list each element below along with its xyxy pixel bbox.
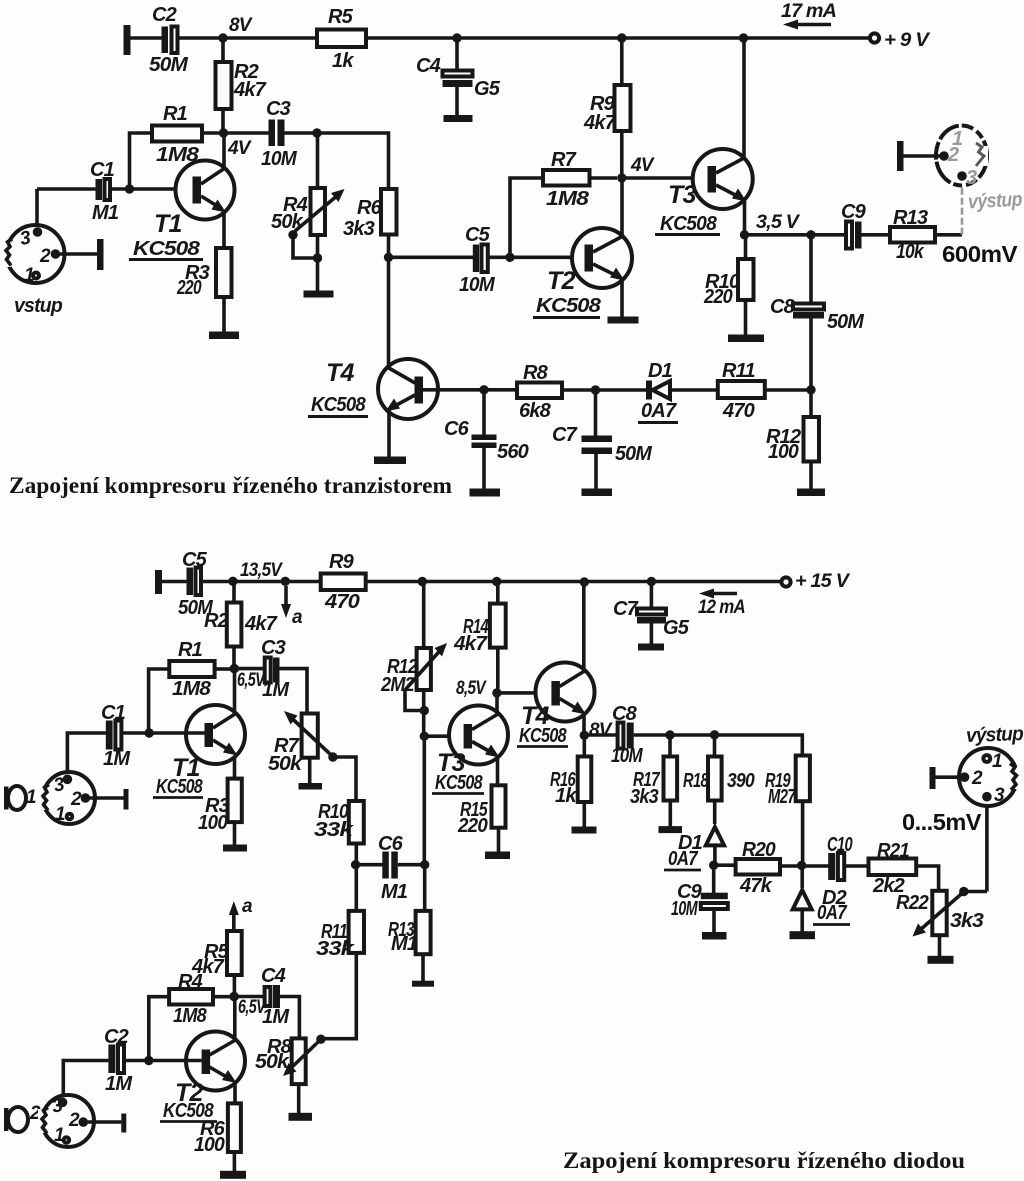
svg-text:1M8: 1M8 (172, 678, 212, 700)
svg-text:50k: 50k (255, 1051, 290, 1073)
svg-text:C8: C8 (612, 703, 638, 725)
capacitor C2 (149, 4, 189, 76)
svg-text:3: 3 (994, 785, 1005, 806)
wire pin3 up to C1 (bottom input 1) (67, 733, 106, 779)
svg-text:KC508: KC508 (311, 394, 367, 416)
600mV label (942, 241, 1018, 267)
resistor R5 1k (317, 6, 366, 72)
T4 collector wire (bottom) (582, 582, 586, 671)
svg-text:13,5V: 13,5V (240, 560, 283, 581)
svg-text:1M8: 1M8 (173, 1005, 208, 1027)
svg-text:2: 2 (68, 1110, 80, 1131)
resistor R5 4k7 (bottom) (191, 931, 242, 997)
svg-text:0A7: 0A7 (668, 848, 698, 870)
svg-text:a: a (292, 607, 303, 628)
resistor R2 4k7 (216, 38, 267, 133)
svg-text:1: 1 (992, 751, 1002, 772)
wire pin3 up to C2 (input 2) (63, 1061, 108, 1103)
input terminal bar (top left) (124, 25, 131, 55)
diode D1 0A7 (bottom) (664, 826, 724, 871)
wire pin2 to ground-plate bar (60, 239, 104, 270)
resistor R11 470 (718, 360, 811, 422)
T2 collector wire (bottom) (233, 997, 237, 1041)
wire C4 right down to R8 (280, 997, 299, 1039)
wire output pin3 down to R22 wiper (985, 800, 989, 892)
svg-text:1M: 1M (262, 679, 290, 701)
capacitor C3 10M (228, 98, 317, 170)
wire C9 to R13 (862, 233, 891, 237)
svg-text:C7: C7 (552, 424, 578, 446)
capacitor C4 1M (234, 965, 290, 1028)
ground below D2 (790, 931, 816, 939)
+15V terminal (781, 571, 850, 592)
capacitor C9 10M (bottom) (671, 865, 728, 932)
ground below C9 (702, 932, 727, 940)
svg-text:R1: R1 (163, 103, 188, 125)
svg-text:100: 100 (198, 812, 228, 834)
node C6 right / R13 top (420, 860, 429, 869)
transistor T3 KC508 (655, 149, 753, 235)
node a with down arrow (281, 577, 303, 628)
svg-text:220: 220 (457, 815, 488, 837)
svg-text:M1: M1 (381, 881, 408, 903)
wire top rail R5 to +9V (366, 36, 870, 40)
node T4 base / C6 (479, 385, 488, 394)
node a2 arrow (above R5) (229, 896, 253, 931)
T4 emitter wire + ground (374, 410, 406, 464)
svg-text:220: 220 (703, 286, 733, 308)
svg-text:KC508: KC508 (536, 295, 602, 317)
resistor R11 33k (bottom) (316, 865, 364, 1039)
0...5mV label (902, 809, 982, 835)
node R10 bottom / C6 left (351, 860, 360, 869)
input terminal bar (bottom schematic) (155, 570, 162, 594)
svg-text:560: 560 (497, 441, 529, 463)
capacitor C6 560 (444, 390, 529, 489)
capacitor C5 10M (459, 224, 496, 296)
svg-text:4V: 4V (227, 138, 252, 159)
svg-text:C1: C1 (90, 159, 115, 181)
svg-text:4V: 4V (630, 155, 655, 176)
ground below R7 (299, 783, 323, 790)
svg-text:17 mA: 17 mA (781, 1, 836, 22)
svg-text:10M: 10M (261, 148, 298, 170)
ground below R13 (412, 981, 434, 987)
svg-text:C6: C6 (378, 833, 404, 855)
svg-text:6k8: 6k8 (519, 400, 552, 422)
T1 emitter wire (222, 211, 226, 248)
wire R1 left down to base node (130, 133, 153, 189)
diode D2 0A7 (793, 869, 850, 932)
svg-text:+ 9 V: + 9 V (884, 30, 930, 51)
DIN connector vstup (input, top schematic) (2, 225, 65, 286)
ground below C7 (582, 489, 613, 497)
potentiometer R12 2M2 (380, 582, 447, 737)
ground below R22 (928, 956, 954, 964)
resistor R21 2k2 (869, 840, 939, 897)
svg-text:+ 15 V: + 15 V (795, 571, 850, 592)
capacitor C8 10M (bottom) (584, 703, 670, 767)
svg-text:2: 2 (947, 144, 959, 166)
svg-text:100: 100 (768, 441, 799, 463)
wire R4 left down to T2 base node (149, 997, 169, 1061)
node 6,5V (T2 collector, bottom) (229, 992, 266, 1018)
node T1 base (110, 184, 193, 193)
svg-text:2M2: 2M2 (380, 674, 415, 696)
output terminal bar (897, 141, 940, 171)
resistor R18 390 (683, 735, 755, 824)
svg-text:R8: R8 (523, 362, 549, 384)
svg-text:33k: 33k (316, 938, 355, 960)
node T3 base (bottom) (420, 732, 464, 865)
T3 collector wire (bottom) (495, 693, 499, 714)
svg-text:C5: C5 (182, 549, 208, 571)
node C7 top (647, 577, 656, 586)
svg-text:50k: 50k (271, 211, 304, 233)
node R12 top (418, 577, 427, 586)
wire node right and down to R6 (317, 133, 389, 189)
resistor R2 4k7 (bottom) (204, 582, 278, 669)
capacitor C3 1M (bottom) (234, 637, 290, 701)
transistor T4 KC508 (mirrored) (308, 359, 438, 419)
resistor R15 220 (457, 785, 505, 852)
resistor R16 1k (550, 735, 591, 827)
12mA current arrow (698, 589, 745, 619)
svg-text:M1: M1 (92, 202, 119, 224)
svg-text:KC508: KC508 (435, 772, 483, 794)
wire terminal to C2 (130, 36, 162, 40)
capacitor C5 50M (bottom) (178, 549, 214, 619)
capacitor C2 1M (bottom) (104, 1026, 133, 1095)
capacitor C7 50M (top schematic) (552, 390, 653, 489)
svg-text:8V: 8V (229, 15, 253, 36)
svg-text:4k7: 4k7 (583, 112, 617, 134)
capacitor C8 50M (770, 235, 865, 390)
svg-text:R2: R2 (204, 610, 229, 632)
T2 base node (bottom) (124, 1056, 202, 1065)
svg-text:8V: 8V (589, 720, 613, 741)
svg-text:C9: C9 (841, 201, 867, 223)
svg-text:R5: R5 (328, 6, 354, 28)
svg-text:C10: C10 (827, 834, 852, 856)
svg-text:R4: R4 (178, 971, 203, 993)
T4 base wire to node (423, 388, 517, 392)
ground below R15 (485, 852, 510, 860)
node 13,5V (228, 560, 283, 586)
T1 collector wire (bottom) (233, 669, 237, 714)
mic symbol O1 (4, 786, 36, 810)
svg-text:T2: T2 (547, 267, 575, 295)
svg-text:10M: 10M (671, 898, 699, 920)
svg-text:2: 2 (39, 246, 51, 267)
svg-text:R13: R13 (893, 207, 928, 229)
svg-text:KC508: KC508 (519, 725, 567, 747)
ground below R4 (304, 291, 334, 298)
ground below R3 (209, 332, 239, 340)
node 4V (T2 collector) (617, 155, 655, 183)
wire node down to R4 (316, 133, 320, 188)
wire terminal to C5 (162, 580, 188, 584)
svg-text:C3: C3 (261, 637, 286, 659)
wire input pin3 up to C1 (35, 189, 39, 232)
ground below R17 (659, 826, 683, 833)
+9V terminal (870, 30, 930, 51)
node R6 bottom / T4 collector (384, 253, 393, 262)
wire 8V node to R5 (223, 36, 317, 40)
T3 emitter wire (bottom) (496, 756, 500, 785)
ground below R10 (728, 335, 764, 343)
ground below R6 (220, 1171, 246, 1179)
svg-text:C2: C2 (104, 1026, 129, 1048)
wire node to T4 base (bottom) (497, 691, 552, 695)
ground below R8 (289, 1113, 313, 1121)
resistor R10 220 (703, 235, 753, 335)
vstup label (14, 295, 63, 317)
wire pin2 to bar (input 1) (90, 789, 129, 810)
svg-text:4k7: 4k7 (244, 613, 278, 635)
node 6,5V (T1 collector, bottom) (230, 664, 266, 691)
T1 base node (bottom) (122, 728, 205, 737)
svg-text:C4: C4 (261, 965, 286, 987)
svg-text:3k3: 3k3 (950, 910, 984, 932)
node C7 top (591, 385, 600, 394)
svg-text:R22: R22 (896, 892, 929, 914)
capacitor C6 M1 (bottom) (356, 833, 425, 903)
resistor R13 10k (890, 207, 935, 263)
node C4 top (452, 33, 461, 42)
DIN connector vystup (bottom schematic) (959, 748, 1019, 806)
svg-text:a: a (242, 896, 253, 917)
svg-text:0A7: 0A7 (641, 400, 677, 422)
svg-text:1M: 1M (262, 1006, 290, 1028)
svg-text:M27: M27 (768, 786, 796, 808)
svg-text:KC508: KC508 (660, 213, 718, 235)
potentiometer R8 50k (bottom) (255, 1035, 326, 1114)
svg-text:1k: 1k (332, 50, 354, 72)
wire to node a (233, 580, 321, 584)
T3 collector wire (742, 38, 746, 159)
node after C3 (312, 128, 321, 137)
svg-text:470: 470 (722, 400, 755, 422)
svg-text:12 mA: 12 mA (698, 597, 745, 618)
svg-text:KC508: KC508 (156, 776, 203, 798)
T2 collector wire (620, 178, 624, 237)
svg-text:R7: R7 (551, 149, 577, 171)
svg-text:470: 470 (324, 591, 360, 613)
ground below C6 (470, 489, 501, 497)
svg-text:Zapojení kompresoru řízeného d: Zapojení kompresoru řízeného diodou (563, 1148, 965, 1173)
resistor R7 1M8 (510, 149, 617, 257)
svg-text:4k7: 4k7 (233, 79, 267, 101)
svg-text:T1: T1 (154, 210, 182, 238)
resistor R3 220 (176, 248, 231, 333)
caption schematic 2 (563, 1148, 965, 1173)
wire 3,5V node to C9 (745, 233, 848, 237)
T2 emitter wire + ground (608, 279, 639, 324)
wire C5 to node 13,5V (201, 580, 233, 584)
svg-text:1M8: 1M8 (546, 188, 590, 210)
svg-text:1: 1 (24, 265, 34, 286)
svg-text:3k3: 3k3 (343, 218, 375, 240)
svg-text:G5: G5 (663, 617, 690, 639)
vystup label (faded) (968, 189, 1023, 214)
node R9 top (617, 33, 626, 42)
svg-text:1: 1 (54, 1125, 64, 1146)
svg-text:3: 3 (966, 167, 977, 189)
resistor R19 M27 (765, 756, 810, 866)
svg-text:C1: C1 (101, 702, 126, 724)
resistor R10 33k (bottom) (314, 801, 364, 865)
svg-text:1: 1 (55, 804, 65, 825)
ground below C4 (444, 115, 473, 122)
svg-text:4k7: 4k7 (453, 633, 488, 655)
17mA current arrow (781, 1, 836, 30)
resistor R1 1M8 (152, 103, 219, 166)
svg-text:50M: 50M (149, 54, 189, 76)
svg-text:C4: C4 (416, 55, 441, 77)
ground below R16 (572, 827, 597, 834)
wire C2 to node 8V (178, 36, 224, 40)
diode D1 0A7 (top schematic) (638, 360, 718, 423)
node 8V (218, 15, 252, 43)
resistor R1 1M8 (bottom) (169, 639, 230, 700)
faint wire up to output pin 3 (961, 184, 964, 235)
potentiometer R22 3k3 (896, 887, 987, 957)
node D1 anode / C9 / R20 (709, 861, 718, 870)
svg-text:50M: 50M (615, 443, 653, 465)
resistor R20 47k (718, 839, 802, 897)
node 3,5V (740, 212, 800, 240)
T2 emitter wire (bottom) (233, 1082, 237, 1103)
potentiometer R4 50k (271, 188, 345, 291)
svg-text:8,5V: 8,5V (456, 678, 487, 699)
svg-text:0A7: 0A7 (817, 902, 847, 924)
node R20 right / R19 bottom / D2 / C10 (797, 861, 806, 870)
resistor R12 100 (766, 390, 819, 489)
svg-text:220: 220 (176, 277, 201, 299)
svg-text:Zapojení kompresoru řízeného t: Zapojení kompresoru řízeného tranzistore… (9, 473, 452, 498)
node 4V (T1 collector) (219, 128, 252, 159)
svg-text:C7: C7 (613, 598, 639, 620)
wire pin2 to bar (input 2) (88, 1114, 126, 1133)
svg-text:výstup: výstup (968, 189, 1023, 214)
capacitor C4 G5 (416, 38, 501, 115)
node T4 collector top (580, 577, 589, 586)
svg-text:1M: 1M (105, 1073, 133, 1095)
wire R1 left down to base node (149, 669, 170, 733)
resistor R4 1M8 (bottom) (169, 971, 230, 1027)
svg-text:C2: C2 (152, 4, 177, 26)
wire to R19 corner (670, 735, 802, 756)
transistor T1 KC508 (bottom) (153, 705, 245, 798)
svg-text:50k: 50k (268, 753, 303, 775)
svg-text:R1: R1 (178, 639, 203, 661)
node C8 right / R17 top (665, 730, 674, 739)
resistor R8 6k8 (517, 362, 647, 422)
ground below C7 (bottom) (638, 644, 664, 651)
T4 emitter wire (bottom) (582, 713, 586, 735)
node R14 top (492, 577, 501, 586)
transistor T3 KC508 (bottom) (432, 706, 508, 795)
resistor R9 4k7 (583, 38, 631, 178)
svg-text:47k: 47k (739, 875, 773, 897)
wire C3 right down to R7 (280, 669, 308, 714)
resistor R6 100 (bottom) (194, 1103, 241, 1171)
node R11 right / C8 bottom (806, 385, 815, 394)
svg-text:C3: C3 (266, 98, 291, 120)
output terminal bar (bottom) (930, 767, 961, 789)
node C8 top (806, 230, 815, 239)
svg-text:10k: 10k (896, 241, 924, 263)
rail R9 to +15V (366, 580, 781, 584)
svg-text:100: 100 (194, 1134, 225, 1156)
capacitor C10 (802, 834, 869, 880)
svg-text:50M: 50M (827, 311, 865, 333)
svg-text:10M: 10M (611, 745, 644, 767)
svg-text:33k: 33k (314, 819, 354, 841)
svg-text:T3: T3 (668, 181, 696, 209)
node 8,5V (456, 678, 502, 699)
svg-text:R20: R20 (742, 839, 776, 861)
T1 collector wire (222, 133, 226, 169)
resistor R13 M1 (bottom) (388, 865, 431, 982)
DIN connector input 1 (bottom schematic) (39, 772, 95, 825)
ground below R12 (797, 489, 825, 497)
ground below R3 (bottom) (223, 845, 247, 852)
svg-text:1M: 1M (103, 748, 131, 770)
svg-text:M1: M1 (391, 933, 418, 955)
svg-text:3,5 V: 3,5 V (756, 212, 800, 233)
svg-text:0...5mV: 0...5mV (902, 809, 982, 835)
resistor R3 100 (bottom) (198, 779, 242, 845)
resistor R9 470 (bottom) (321, 551, 366, 613)
T3 emitter wire (743, 199, 747, 235)
resistor R17 3k3 (bottom) (630, 735, 677, 827)
transistor T4 KC508 (bottom) (517, 663, 595, 748)
DIN connector vystup (output, top schematic, faded) (936, 126, 988, 190)
resistor R14 4k7 (453, 582, 506, 694)
wire node to C5 (389, 255, 474, 259)
svg-text:1: 1 (26, 787, 36, 808)
svg-text:R11: R11 (722, 360, 755, 382)
svg-text:600mV: 600mV (942, 241, 1018, 267)
resistor R6 3k3 (343, 189, 397, 257)
svg-text:výstup: výstup (966, 723, 1024, 747)
transistor T1 KC508 (129, 161, 235, 261)
svg-text:D1: D1 (648, 360, 673, 382)
transistor T2 KC508 (top) (533, 228, 632, 318)
svg-text:KC508: KC508 (133, 238, 201, 260)
T4 collector wire (up to R6 node) (387, 257, 391, 368)
svg-text:2: 2 (70, 789, 82, 810)
svg-text:1k: 1k (555, 785, 577, 807)
svg-text:R9: R9 (329, 551, 355, 573)
svg-text:C5: C5 (465, 224, 491, 246)
svg-text:390: 390 (727, 770, 755, 792)
potentiometer R7 50k (bottom) (268, 711, 356, 801)
node R18 top (710, 730, 719, 739)
DIN connector input 2 (bottom schematic) (38, 1095, 94, 1147)
vystup label (bottom) (966, 723, 1024, 747)
wire C5 to T2 base with R7 tap node (488, 253, 585, 262)
capacitor C9 (841, 201, 867, 249)
transistor T2 KC508 (bottom) (160, 1032, 245, 1123)
capacitor C1 M1 (37, 159, 119, 224)
svg-text:vstup: vstup (14, 295, 63, 317)
capacitor C1 1M (bottom) (101, 702, 131, 770)
caption schematic 1 (9, 473, 452, 498)
node T3 collector top (739, 33, 748, 42)
